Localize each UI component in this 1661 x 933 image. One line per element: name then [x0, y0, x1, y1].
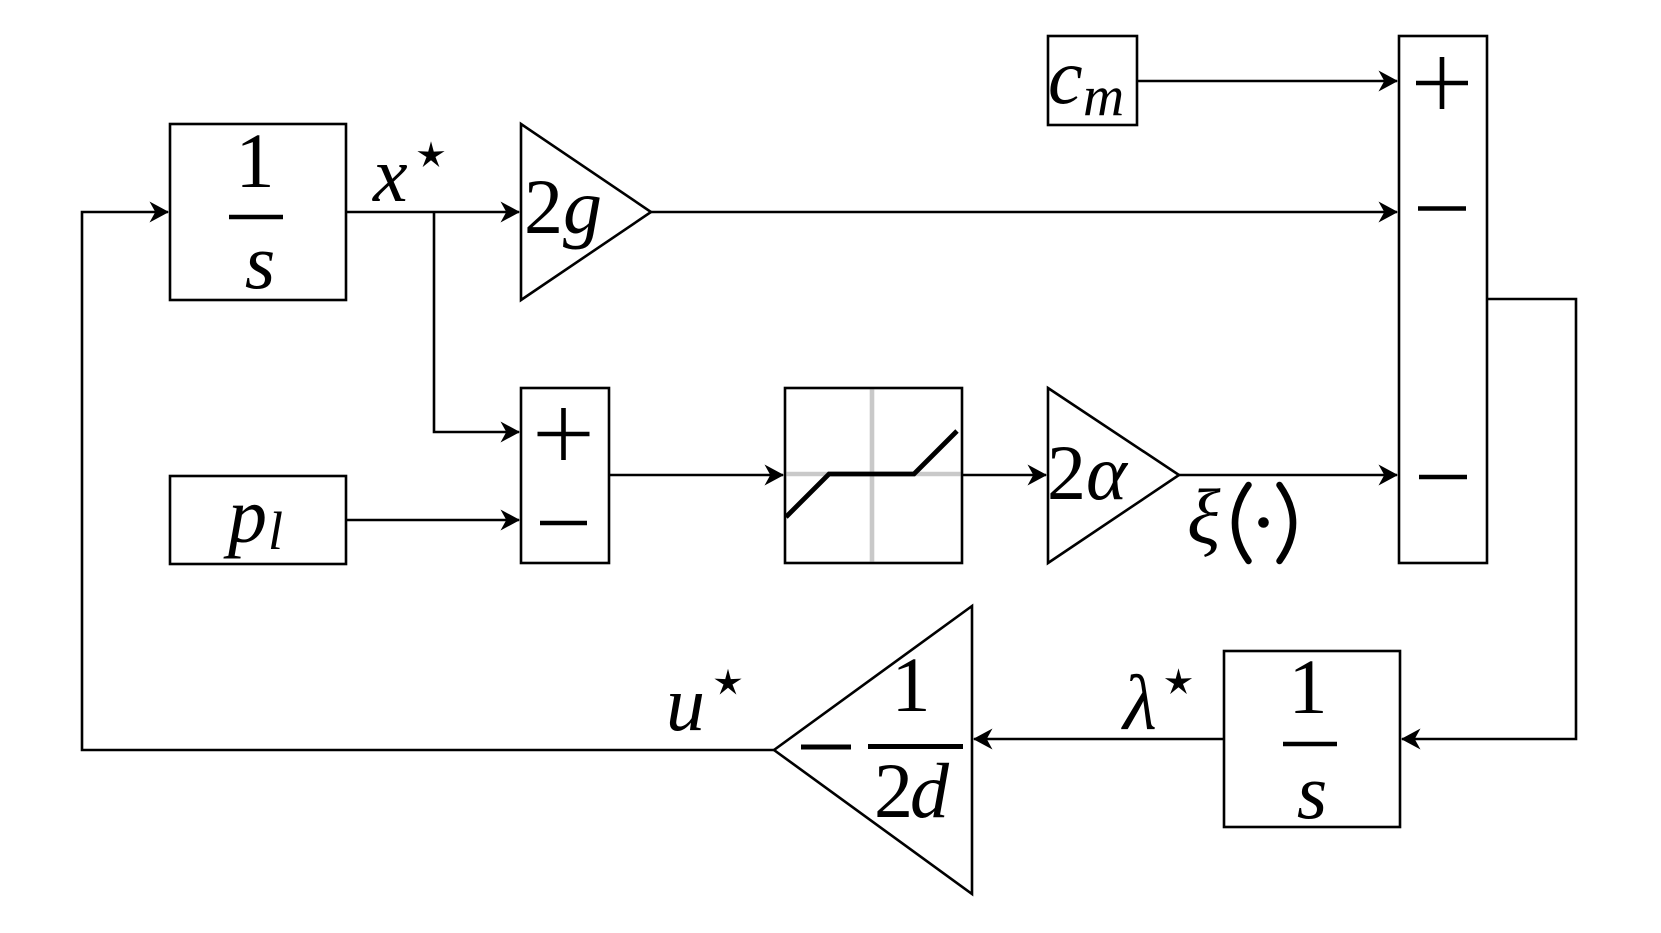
label xi(dot)	[1187, 473, 1293, 561]
svg-text:c: c	[1048, 33, 1083, 120]
svg-text:l: l	[268, 501, 283, 561]
first minus sign of right sum	[1418, 206, 1466, 211]
arrowhead into right sum second minus input	[1379, 465, 1399, 486]
svg-text:d: d	[910, 747, 950, 834]
gray axes of saturation block	[787, 390, 961, 562]
svg-text:2g: 2g	[524, 163, 602, 250]
integrator block 1/s bottom-right	[1224, 651, 1400, 827]
label -1/2d	[801, 641, 963, 834]
arrowhead into 2g	[501, 202, 521, 223]
gain triangle 2alpha	[1048, 388, 1179, 563]
wire saturation to 2alpha	[962, 474, 1046, 477]
gain triangle 2g	[521, 124, 651, 300]
svg-text:2: 2	[874, 747, 913, 834]
branch wire from x-star down to middle sum	[434, 212, 519, 432]
dead-zone curve	[786, 431, 957, 517]
minus sign of middle sum	[540, 521, 587, 526]
arrowhead into right sum first minus input	[1379, 202, 1399, 223]
constant block p_l	[170, 476, 346, 564]
arrowhead into middle sum minus input	[501, 510, 521, 531]
svg-text:x: x	[372, 131, 408, 218]
svg-text:s: s	[245, 218, 275, 305]
arrowhead into -1/2d gain	[973, 729, 993, 750]
label 1/s (top integrator)	[229, 117, 283, 305]
svg-text:s: s	[1297, 748, 1327, 835]
summation block middle (+,-)	[521, 388, 609, 563]
wire 2g to right sum	[651, 211, 1397, 214]
plus sign of right sum	[1416, 57, 1468, 109]
integrator block 1/s top-left	[170, 124, 346, 300]
constant block c_m	[1048, 36, 1137, 125]
svg-text:λ: λ	[1121, 659, 1157, 746]
wire p_l to middle sum	[346, 519, 519, 522]
arrowhead into 2alpha	[1028, 465, 1048, 486]
saturation (dead-zone) block	[785, 388, 962, 563]
arrowhead into middle sum plus input	[501, 422, 521, 443]
wire bottom integrator to -1/2d gain	[974, 738, 1224, 741]
wire middle sum to saturation	[609, 474, 783, 477]
feedback wire from -1/2d output around to top integrator	[82, 212, 774, 750]
label lambda-star	[1121, 659, 1192, 746]
svg-text:m: m	[1083, 65, 1124, 128]
svg-text:1: 1	[1289, 643, 1328, 730]
svg-text:1: 1	[236, 117, 275, 204]
svg-text:2α: 2α	[1047, 429, 1129, 516]
label 1/s (bottom integrator)	[1283, 643, 1337, 835]
label x-star	[372, 131, 445, 218]
wire right sum output down to bottom integrator	[1402, 299, 1576, 739]
svg-text:p: p	[223, 472, 267, 559]
wire 2alpha to right sum (xi node)	[1179, 474, 1397, 477]
plus sign of middle sum	[538, 408, 590, 460]
label p_l	[223, 472, 283, 561]
wire c_m to right sum	[1137, 80, 1397, 83]
summation block right (+,-,-)	[1399, 36, 1487, 563]
gain triangle -1/2d (left pointing)	[774, 606, 972, 894]
label u-star	[666, 660, 742, 747]
label c_m	[1048, 33, 1124, 128]
svg-text:ξ: ξ	[1187, 473, 1221, 560]
svg-text:u: u	[666, 660, 705, 747]
arrowhead into bottom integrator	[1401, 729, 1421, 750]
arrowhead into top integrator	[150, 202, 170, 223]
svg-text:1: 1	[892, 641, 931, 728]
arrowhead into right sum plus input	[1379, 71, 1399, 92]
wire integrator to 2g (x-star node)	[346, 211, 519, 214]
second minus sign of right sum	[1419, 475, 1467, 480]
arrowhead into saturation	[765, 465, 785, 486]
